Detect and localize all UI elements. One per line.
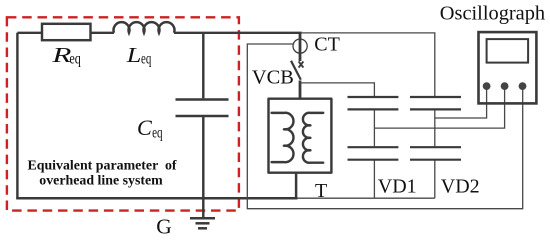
svg-text:Oscillograph: Oscillograph <box>440 3 545 25</box>
svg-text:G: G <box>156 215 172 238</box>
svg-text:VCB: VCB <box>252 66 294 88</box>
svg-text:C: C <box>137 116 152 140</box>
svg-text:eq: eq <box>141 51 151 68</box>
svg-text:VD1: VD1 <box>378 176 417 198</box>
svg-text:eq: eq <box>69 51 81 68</box>
svg-text:L: L <box>126 43 142 67</box>
svg-text:T: T <box>315 180 327 202</box>
svg-text:eq: eq <box>152 124 163 141</box>
svg-text:VD2: VD2 <box>441 176 480 198</box>
svg-text:Equivalent parameter of: Equivalent parameter of <box>27 159 176 174</box>
svg-text:overhead line system: overhead line system <box>39 174 163 189</box>
svg-text:R: R <box>51 43 71 67</box>
svg-text:CT: CT <box>314 34 340 56</box>
